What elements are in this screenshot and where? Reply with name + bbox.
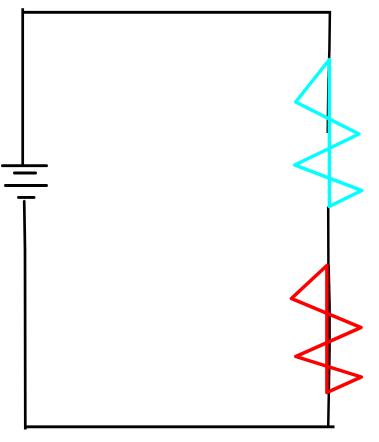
resistor R1 lead (cyan vertical): [328, 60, 331, 207]
wire right lower (through R2 to bottom corner): [328, 265, 329, 428]
battery B1 plate short bottom: [19, 196, 35, 199]
resistor R2 lead (red vertical): [325, 266, 329, 393]
battery B1 plate long top: [3, 164, 47, 167]
wire left upper: [21, 8, 24, 166]
wire left lower: [24, 201, 25, 430]
battery B1 plate long bottom: [6, 184, 47, 187]
resistor R2 zigzag (red): [291, 266, 361, 393]
wire bottom: [24, 425, 335, 428]
wire right middle (between resistors): [327, 207, 330, 267]
wire left lower start tick: [23, 201, 25, 205]
wire right upper (top corner to resistor R1): [328, 11, 330, 133]
battery B1 plate short: [15, 172, 36, 175]
wire top: [22, 11, 331, 14]
resistor R1 zigzag (cyan): [295, 60, 362, 207]
